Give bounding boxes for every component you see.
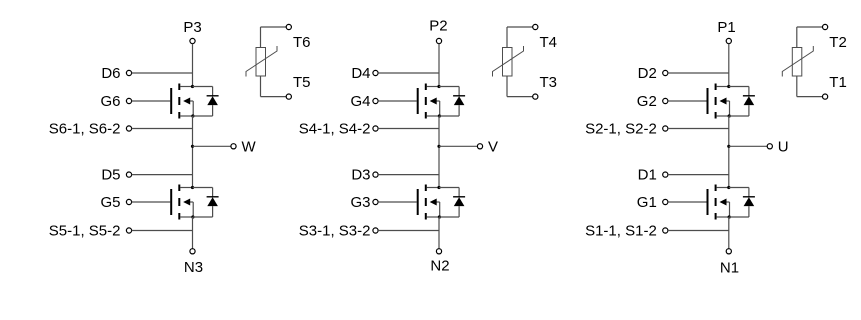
wire thermistor top lead xyxy=(261,27,287,48)
wire thermistor top lead xyxy=(797,27,823,48)
terminal S3-1, S3-2 xyxy=(373,228,378,233)
node U junction dot xyxy=(727,145,730,148)
wire D6 to drain rail xyxy=(132,72,193,74)
transistor Q2 (N-channel MOSFET, gate G2) xyxy=(708,84,731,119)
wire rail Q4 source to Q3 drain xyxy=(438,116,440,188)
terminal D2 xyxy=(663,70,668,75)
svg-text:N3: N3 xyxy=(184,259,203,276)
svg-text:T2: T2 xyxy=(829,34,847,51)
svg-text:G4: G4 xyxy=(350,93,370,110)
terminal T3 xyxy=(533,94,538,99)
svg-text:P3: P3 xyxy=(183,19,201,36)
svg-text:D5: D5 xyxy=(101,167,120,184)
svg-text:G2: G2 xyxy=(637,93,657,110)
svg-text:G5: G5 xyxy=(100,194,120,211)
terminal V xyxy=(477,144,482,149)
wire G4 gate lead xyxy=(378,100,417,102)
wire S2-1, S2-2 to source rail xyxy=(668,128,729,130)
body diode of Q4 xyxy=(439,87,465,117)
terminal S1-1, S1-2 xyxy=(663,228,668,233)
svg-text:W: W xyxy=(242,138,257,155)
terminal D5 xyxy=(126,172,131,177)
terminal T5 xyxy=(286,94,291,99)
svg-text:T5: T5 xyxy=(293,74,311,91)
svg-text:G1: G1 xyxy=(637,194,657,211)
transistor Q4 (N-channel MOSFET, gate G4) xyxy=(418,84,441,119)
terminal W xyxy=(231,144,236,149)
terminal U xyxy=(767,144,772,149)
svg-text:D3: D3 xyxy=(351,167,370,184)
svg-text:D4: D4 xyxy=(351,65,370,82)
wire D1 to drain rail xyxy=(668,174,729,176)
terminal T2 xyxy=(823,24,828,29)
wire thermistor top lead xyxy=(507,27,533,48)
wire D3 to drain rail xyxy=(378,174,439,176)
wire P2 rail to Q4 drain xyxy=(438,44,440,87)
svg-text:S5-1, S5-2: S5-1, S5-2 xyxy=(49,223,121,240)
terminal P3 xyxy=(190,38,195,43)
NTC thermistor (T4-T3) xyxy=(493,46,524,77)
terminal G1 xyxy=(663,199,668,204)
terminal D4 xyxy=(373,70,378,75)
terminal G5 xyxy=(126,199,131,204)
wire G6 gate lead xyxy=(132,100,171,102)
svg-text:S2-1, S2-2: S2-1, S2-2 xyxy=(585,121,657,138)
wire rail Q6 source to Q5 drain xyxy=(192,116,194,188)
svg-text:D1: D1 xyxy=(638,167,657,184)
wire rail Q1 source to N1 xyxy=(728,217,730,249)
transistor Q1 (N-channel MOSFET, gate G1) xyxy=(708,185,731,220)
wire S4-1, S4-2 to source rail xyxy=(378,128,439,130)
wire thermistor bottom lead xyxy=(797,76,823,97)
terminal P2 xyxy=(436,38,441,43)
body diode of Q5 xyxy=(193,188,219,218)
svg-text:G6: G6 xyxy=(100,93,120,110)
svg-text:P1: P1 xyxy=(717,19,735,36)
body diode of Q3 xyxy=(439,188,465,218)
body diode of Q6 xyxy=(193,87,219,117)
node V junction dot xyxy=(437,145,440,148)
wire P3 rail to Q6 drain xyxy=(192,44,194,87)
svg-text:N2: N2 xyxy=(430,258,449,275)
svg-text:S6-1, S6-2: S6-1, S6-2 xyxy=(49,121,121,138)
svg-text:S4-1, S4-2: S4-1, S4-2 xyxy=(299,121,371,138)
wire G3 gate lead xyxy=(378,201,417,203)
terminal N1 xyxy=(726,249,731,254)
terminal S6-1, S6-2 xyxy=(126,126,131,131)
terminal T1 xyxy=(823,94,828,99)
wire D5 to drain rail xyxy=(132,174,193,176)
svg-text:T3: T3 xyxy=(540,74,558,91)
wire node V xyxy=(439,145,477,147)
terminal S2-1, S2-2 xyxy=(663,126,668,131)
body diode of Q2 xyxy=(729,87,755,117)
terminal T4 xyxy=(533,24,538,29)
wire S5-1, S5-2 to source rail xyxy=(132,230,193,232)
svg-text:T4: T4 xyxy=(540,34,558,51)
wire thermistor bottom lead xyxy=(507,76,533,97)
transistor Q6 (N-channel MOSFET, gate G6) xyxy=(171,84,194,119)
terminal S5-1, S5-2 xyxy=(126,228,131,233)
terminal N2 xyxy=(436,249,441,254)
wire S3-1, S3-2 to source rail xyxy=(378,230,439,232)
wire rail Q2 source to Q1 drain xyxy=(728,116,730,188)
terminal D3 xyxy=(373,172,378,177)
wire rail Q3 source to N2 xyxy=(438,217,440,249)
transistor Q5 (N-channel MOSFET, gate G5) xyxy=(171,185,194,220)
svg-text:D2: D2 xyxy=(638,65,657,82)
wire S6-1, S6-2 to source rail xyxy=(132,128,193,130)
terminal D6 xyxy=(126,70,131,75)
wire G1 gate lead xyxy=(668,201,707,203)
wire G5 gate lead xyxy=(132,201,171,203)
wire node U xyxy=(729,145,767,147)
wire D2 to drain rail xyxy=(668,72,729,74)
wire S1-1, S1-2 to source rail xyxy=(668,230,729,232)
svg-text:G3: G3 xyxy=(350,194,370,211)
terminal G6 xyxy=(126,98,131,103)
terminal G2 xyxy=(663,98,668,103)
terminal P1 xyxy=(726,38,731,43)
terminal S4-1, S4-2 xyxy=(373,126,378,131)
terminal N3 xyxy=(190,249,195,254)
wire rail Q5 source to N3 xyxy=(192,217,194,249)
svg-text:D6: D6 xyxy=(101,65,120,82)
NTC thermistor (T2-T1) xyxy=(782,46,813,77)
terminal D1 xyxy=(663,172,668,177)
svg-text:P2: P2 xyxy=(429,18,447,35)
svg-text:N1: N1 xyxy=(720,259,739,276)
svg-text:S1-1, S1-2: S1-1, S1-2 xyxy=(585,223,657,240)
svg-text:S3-1, S3-2: S3-1, S3-2 xyxy=(299,223,371,240)
wire G2 gate lead xyxy=(668,100,707,102)
svg-text:U: U xyxy=(778,138,789,155)
svg-text:T1: T1 xyxy=(829,74,847,91)
transistor Q3 (N-channel MOSFET, gate G3) xyxy=(418,185,441,220)
svg-text:V: V xyxy=(488,138,498,155)
terminal T6 xyxy=(286,24,291,29)
body diode of Q1 xyxy=(729,188,755,218)
terminal G4 xyxy=(373,98,378,103)
wire thermistor bottom lead xyxy=(261,76,287,97)
terminal G3 xyxy=(373,199,378,204)
svg-text:T6: T6 xyxy=(293,34,311,51)
node W junction dot xyxy=(191,145,194,148)
wire node W xyxy=(193,145,231,147)
wire D4 to drain rail xyxy=(378,72,439,74)
NTC thermistor (T6-T5) xyxy=(246,46,277,77)
wire P1 rail to Q2 drain xyxy=(728,44,730,87)
